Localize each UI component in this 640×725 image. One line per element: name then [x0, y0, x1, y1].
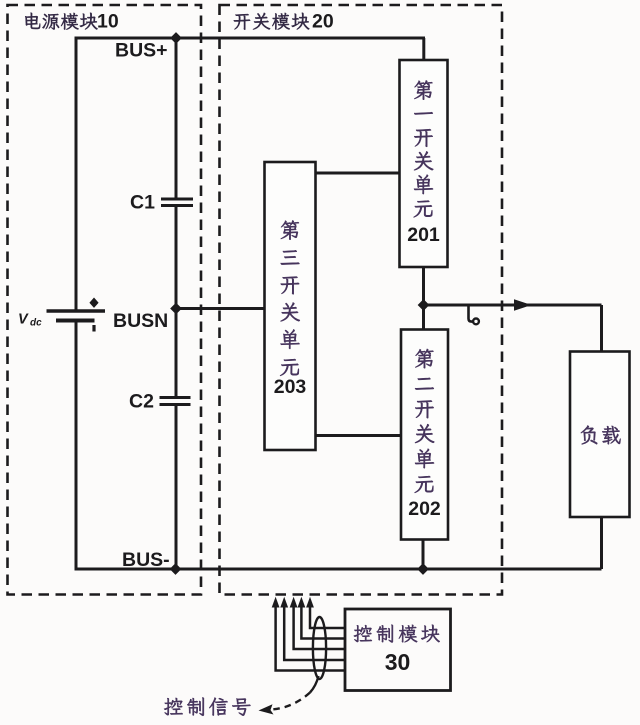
- battery plus diamond: [89, 298, 98, 308]
- probe hook symbol: [469, 306, 473, 322]
- battery Vdc short plate (-): [56, 319, 95, 323]
- wire output to load (horizontal): [424, 304, 602, 307]
- capacitor C2: [160, 396, 191, 399]
- node BUS+ / C1 junction: [171, 33, 181, 43]
- control signal arrowhead: [259, 704, 274, 714]
- wire BUS+ drop to unit 201: [422, 38, 425, 60]
- battery Vdc long plate (+): [47, 309, 106, 312]
- svg-text:BUS-: BUS-: [122, 549, 170, 571]
- wire output drop to load top: [600, 305, 603, 352]
- node BUSN junction: [171, 304, 181, 314]
- control signal wire 2 with up-arrow: [284, 605, 345, 660]
- switch unit box 203: [265, 162, 316, 450]
- svg-text:201: 201: [407, 224, 440, 246]
- switch module box 20 (dashed): [220, 5, 503, 595]
- svg-text:202: 202: [408, 498, 441, 520]
- switch unit box 201: [400, 60, 448, 267]
- svg-text:BUSN: BUSN: [113, 310, 168, 332]
- switch unit box 202: [401, 330, 448, 540]
- wire BUSN horizontal to unit 203: [176, 307, 266, 310]
- wire unit 203 to unit 202: [315, 434, 402, 437]
- label 第一开关单元 201: [407, 80, 440, 246]
- label 控制模块 30: [354, 625, 440, 675]
- svg-text:203: 203: [274, 376, 307, 398]
- label 第二开关单元 202: [408, 349, 441, 520]
- wire unit 203 to unit 201: [315, 172, 400, 175]
- wire load bottom to BUS-: [600, 517, 603, 569]
- control signal wire 5 with up-arrow: [310, 605, 345, 628]
- svg-text:C2: C2: [129, 391, 154, 413]
- node unit202 / BUS- junction: [418, 564, 428, 574]
- wire unit 201 bottom to unit 202 top: [422, 267, 425, 330]
- bundle ellipse: [313, 617, 326, 679]
- label 电源模块10: [25, 11, 119, 33]
- control signal arrow tail (solid part): [310, 676, 319, 693]
- wire left vertical bottom (Vdc- to BUS-): [75, 321, 78, 570]
- node output junction: [419, 300, 429, 310]
- svg-text:V: V: [18, 312, 29, 328]
- wire BUS+ horizontal: [75, 37, 426, 40]
- wire left vertical top (Vdc+ to BUS+): [75, 38, 78, 311]
- label 开关模块20: [234, 11, 334, 33]
- node BUS- / C2 junction: [171, 564, 181, 574]
- control signal wire 3 with up-arrow: [294, 605, 345, 649]
- svg-text:BUS+: BUS+: [115, 40, 168, 62]
- battery minus tick: [92, 325, 95, 332]
- control signal arrow (dashed): [273, 693, 310, 710]
- svg-text:C1: C1: [130, 192, 155, 214]
- power module box 10 (dashed): [8, 5, 202, 595]
- wire unit 202 bottom to BUS-: [422, 540, 425, 570]
- label 负载: [581, 426, 621, 445]
- output arrowhead: [514, 299, 532, 311]
- svg-text:30: 30: [385, 649, 411, 675]
- wire capacitor chain C1 lower to BUSN: [175, 206, 178, 309]
- wire BUSN to C2: [175, 309, 178, 398]
- wire C2 lower to BUS-: [175, 405, 178, 570]
- wire capacitor chain C1 upper: [175, 38, 178, 199]
- svg-text:20: 20: [312, 11, 334, 33]
- control signal wire 4 with up-arrow: [301, 605, 345, 639]
- wire BUS- horizontal: [75, 568, 602, 571]
- capacitor C1: [161, 198, 193, 201]
- svg-text:10: 10: [97, 11, 119, 33]
- control module box 30: [345, 609, 451, 691]
- label 控制信号: [164, 697, 250, 715]
- label 第三开关单元 203: [274, 220, 307, 398]
- control signal wire 1 with up-arrow: [276, 605, 345, 671]
- load box: [570, 352, 630, 518]
- svg-text:dc: dc: [30, 318, 42, 329]
